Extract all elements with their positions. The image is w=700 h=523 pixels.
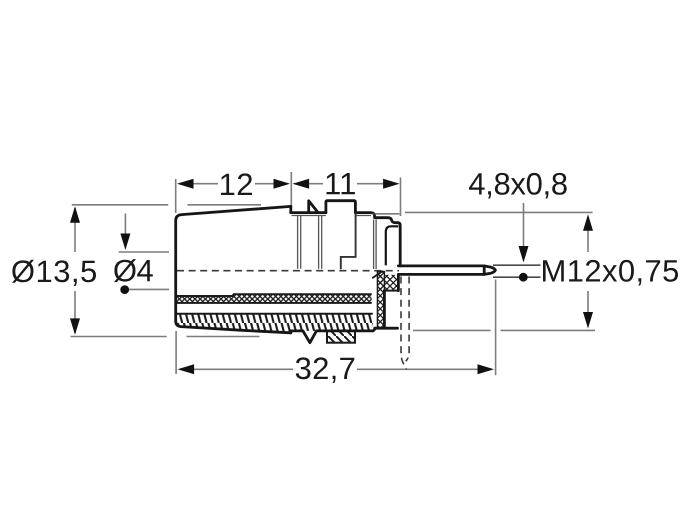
dia13.5 top extension line [72, 204, 261, 206]
step at cone right [289, 206, 292, 212]
inner ledge line [292, 215, 372, 217]
arrow dia4 down [120, 234, 130, 251]
slot line d [321, 216, 323, 269]
dot M12 leader [519, 273, 528, 282]
hidden contour dashed vertical 2 [406, 277, 409, 362]
label M12x0,75 [543, 260, 678, 286]
dia4 arrow stem [124, 214, 126, 247]
extension line x400 [400, 177, 402, 216]
label 32,7 [296, 357, 355, 383]
knurl thin band [176, 294, 372, 303]
slot line c [318, 216, 320, 269]
bushing inner line b [375, 220, 377, 270]
dim 11 line [294, 183, 397, 185]
solder lug hatched [327, 331, 355, 343]
tab bottom reference line with dot [493, 276, 541, 278]
key block [326, 201, 356, 213]
slot line a [297, 216, 299, 269]
M12 top extension [405, 211, 593, 213]
flange below centerline [375, 275, 399, 329]
dia4 leader top [119, 251, 169, 253]
tab top reference line [493, 264, 541, 266]
thread OD line [372, 213, 400, 215]
bushing top line [291, 213, 400, 266]
32,7 right extension [495, 280, 497, 376]
extension line left body [175, 179, 177, 213]
arrow 4,8 down [519, 246, 529, 263]
dim 12 line [179, 183, 288, 185]
M12 dimension line vertical [587, 217, 589, 325]
arrow dia13.5 down [70, 318, 80, 335]
hidden contour dashed vertical 1 [401, 277, 406, 370]
flange column hatched [377, 272, 384, 328]
bushing bottom outline [291, 331, 373, 343]
knurl thick band (section) [176, 314, 373, 333]
label 4,8x0,8 [469, 173, 567, 199]
cone head outline [176, 206, 291, 332]
tab tip [484, 266, 495, 275]
tab terminal bottom [398, 273, 484, 276]
flange corner bottom [373, 328, 375, 331]
snap tooth [309, 201, 318, 213]
arrow 12 right [274, 179, 291, 189]
flange inner rounded line [386, 226, 399, 265]
arrow dia13.5 up [70, 206, 80, 223]
arrow 32,7 left [178, 364, 195, 374]
arrow M12 down [583, 312, 593, 329]
arrow 11 right [383, 179, 400, 189]
arrow M12 up [583, 214, 593, 231]
arrow 32,7 right [478, 364, 495, 374]
flange block hatched [377, 275, 398, 291]
tab terminal top [398, 264, 484, 267]
label 12 [221, 173, 252, 195]
label dia 13,5 [12, 260, 96, 286]
chamfer diagonal [373, 271, 383, 278]
arrow 11 left [293, 179, 310, 189]
contact slot step [341, 213, 356, 270]
dia13.5 dimension line vertical [74, 208, 76, 333]
arrow 12 left [177, 179, 194, 189]
slot line b [300, 216, 302, 269]
label dia 4 [114, 259, 153, 282]
dia13.5 bottom extension line [71, 336, 260, 338]
M12 bottom extension [413, 329, 595, 331]
bushing inner line a [373, 220, 375, 270]
4,8 leader stem [523, 203, 525, 256]
dot dia4 [120, 285, 129, 294]
dia4 leader bottom [129, 288, 169, 290]
32,7 left extension [175, 331, 177, 374]
extension line x291 [290, 172, 292, 208]
label 11 [327, 173, 355, 194]
centerline [177, 270, 399, 272]
32,7 dimension line [180, 368, 491, 370]
